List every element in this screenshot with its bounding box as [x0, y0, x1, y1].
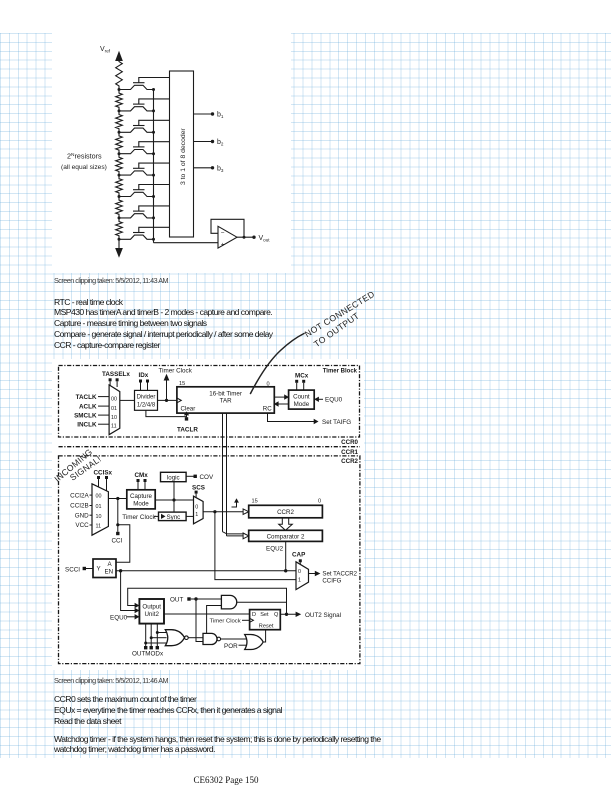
- svg-text:SMCLK: SMCLK: [74, 412, 97, 419]
- svg-text:11: 11: [96, 524, 102, 530]
- svg-text:TASSELx: TASSELx: [102, 371, 130, 378]
- svg-text:RC: RC: [263, 405, 272, 412]
- wire outmod verticals: [144, 624, 159, 650]
- svg-text:1: 1: [195, 512, 198, 518]
- node EQU0 into count mode: [314, 397, 343, 404]
- node TACLK input: [76, 394, 109, 401]
- svg-text:2Nresistors: 2Nresistors: [67, 152, 102, 161]
- svg-text:EQU0: EQU0: [325, 397, 343, 404]
- svg-text:Unit2: Unit2: [144, 611, 159, 618]
- svg-text:CCR1: CCR1: [341, 449, 358, 456]
- svg-text:IDx: IDx: [139, 372, 149, 379]
- transistor Q7: [118, 206, 170, 220]
- count mode U6: [289, 390, 315, 409]
- wire OUT feedback loop: [128, 588, 287, 614]
- divider U4: [135, 390, 158, 410]
- svg-text:3 to 1 of 8 decoder: 3 to 1 of 8 decoder: [180, 128, 187, 185]
- node COV output: [186, 474, 214, 481]
- svg-text:Divider: Divider: [137, 395, 156, 401]
- wire rail bottom: [118, 239, 120, 249]
- handwritten pointer curve: [251, 334, 305, 394]
- svg-text:0: 0: [318, 499, 321, 505]
- svg-text:01: 01: [96, 504, 102, 510]
- AND gate U18: [221, 595, 236, 609]
- node b3 output: [194, 165, 224, 173]
- MCx select stubs: [295, 380, 305, 390]
- resistor R6: [116, 175, 123, 196]
- wire output unit to D: [164, 613, 250, 615]
- NAND gate U20: [203, 633, 221, 644]
- op-amp U2: [218, 226, 237, 248]
- wire logic chain vertical: [173, 482, 175, 512]
- SCH2START: [59, 366, 361, 664]
- wire capture to CAP mux input1: [215, 512, 296, 580]
- svg-text:CCI2A: CCI2A: [70, 492, 89, 499]
- wire Set TACCR2 CCIFG: [309, 570, 358, 584]
- svg-text:Comparator 2: Comparator 2: [267, 534, 305, 541]
- svg-text:CCIFG: CCIFG: [322, 577, 341, 584]
- node b1 output: [194, 112, 224, 120]
- wire Set TAIFG: [268, 413, 352, 426]
- svg-text:logic: logic: [167, 474, 180, 481]
- svg-text:TAR: TAR: [220, 398, 232, 405]
- svg-text:10: 10: [111, 415, 117, 421]
- wire outmod taps to NOR: [144, 631, 166, 645]
- svg-text:CCI: CCI: [112, 537, 123, 544]
- resistor R8: [116, 218, 123, 239]
- svg-text:CCI2B: CCI2B: [70, 503, 89, 510]
- svg-text:CCR0: CCR0: [341, 439, 358, 446]
- CCR2 section dashed border: [59, 456, 360, 664]
- svg-text:00: 00: [96, 494, 102, 500]
- svg-text:COV: COV: [200, 474, 214, 481]
- svg-text:VCC: VCC: [75, 522, 89, 529]
- svg-text:Reset: Reset: [259, 624, 274, 630]
- wire Q output OUT2: [280, 612, 341, 619]
- svg-text:0: 0: [298, 569, 301, 575]
- resistor R5: [116, 154, 123, 175]
- svg-text:Timer Clock: Timer Clock: [159, 367, 193, 374]
- SCH1START: [61, 46, 270, 257]
- wire OUT down to NAND: [196, 599, 203, 642]
- resistor R4: [116, 132, 123, 153]
- CAP select stub: [299, 559, 302, 564]
- svg-text:0: 0: [195, 505, 198, 511]
- svg-text:MCx: MCx: [295, 373, 309, 380]
- mux U11 SCS sync select: [194, 496, 204, 524]
- TASSELx select stubs: [109, 378, 119, 387]
- svg-text:EQU2: EQU2: [266, 546, 284, 553]
- resistor R7: [116, 197, 123, 218]
- transistor Q3: [118, 120, 170, 134]
- node CCI2A input: [70, 492, 92, 499]
- IDx select stubs: [139, 380, 149, 391]
- logic box U9: [161, 472, 187, 481]
- svg-text:b2: b2: [217, 139, 224, 147]
- label Timer Clock sync: [122, 514, 158, 521]
- mux U3 clock select: [109, 385, 120, 435]
- transistor Q1: [118, 78, 170, 92]
- wire NOR to NAND: [188, 637, 203, 639]
- svg-text:POR: POR: [224, 643, 238, 650]
- svg-text:TACLK: TACLK: [76, 394, 97, 401]
- wire OR to FF reset: [263, 630, 265, 642]
- node INCLK input: [77, 421, 109, 428]
- svg-text:b3: b3: [217, 165, 224, 173]
- node latch EN junction: [119, 569, 122, 572]
- node timer clock junction: [165, 399, 168, 402]
- svg-text:CAP: CAP: [292, 552, 305, 559]
- svg-text:CCR2: CCR2: [277, 509, 294, 516]
- block arrow CCR2 to comparator: [279, 518, 293, 531]
- arrow into output unit 1: [135, 603, 140, 608]
- svg-text:Timer Clock: Timer Clock: [122, 514, 156, 521]
- wire NAND to OR: [221, 638, 246, 640]
- svg-text:Set TAIFG: Set TAIFG: [322, 419, 351, 426]
- node EQU2 junction: [284, 569, 287, 572]
- capture edge symbol: [232, 498, 239, 507]
- svg-text:Timer Block: Timer Block: [323, 369, 358, 375]
- node logic junction: [172, 498, 175, 501]
- wire TAR to count mode: [274, 394, 289, 399]
- wire sync to mux: [186, 515, 193, 517]
- wire CCI drop: [116, 499, 119, 536]
- svg-text:Set: Set: [260, 612, 269, 618]
- svg-text:EQU0: EQU0: [110, 614, 128, 621]
- wire feedback loop: [211, 219, 244, 237]
- svg-text:Count: Count: [293, 393, 310, 400]
- wire comparator to EQU2 line: [285, 541, 287, 570]
- OR gate U21: [245, 635, 264, 650]
- wire CCIS mux to capture mode: [108, 498, 126, 500]
- svg-text:Mode: Mode: [133, 501, 149, 508]
- wire count mode to TAR: [274, 401, 289, 406]
- svg-text:+: +: [221, 241, 225, 248]
- mux U14 CAP select: [296, 562, 309, 590]
- capture register U12 CCR2: [249, 505, 323, 518]
- svg-text:CCR2: CCR2: [341, 458, 358, 465]
- svg-text:Y: Y: [97, 566, 101, 573]
- wire AND input2 stub: [207, 606, 222, 634]
- CMx select stubs: [137, 479, 147, 490]
- node CCI2B input: [70, 503, 92, 510]
- svg-text:Output: Output: [142, 604, 161, 611]
- svg-text:EN: EN: [105, 569, 114, 576]
- ground arrow: [116, 249, 122, 257]
- svg-text:OUT2 Signal: OUT2 Signal: [305, 612, 341, 619]
- svg-text:b1: b1: [217, 112, 224, 120]
- svg-text:Sync: Sync: [167, 514, 181, 521]
- wire output bus: [153, 90, 155, 243]
- node OUT terminal: [170, 597, 221, 604]
- wire EN junction to output unit: [121, 571, 136, 611]
- HANDSTART: [52, 289, 376, 484]
- svg-text:11: 11: [111, 424, 117, 430]
- comparator U13: [249, 530, 323, 541]
- transistor Q6: [118, 185, 170, 199]
- wire capture mode to SCS mux: [155, 499, 193, 501]
- Vref supply arrow: [116, 52, 122, 61]
- SCS select stub: [195, 491, 198, 498]
- node ACLK input: [79, 403, 109, 410]
- node CCI junction: [116, 497, 119, 500]
- wire SCS mux output: [203, 511, 243, 513]
- arrow into output unit 2: [135, 608, 140, 613]
- timer block dashed border: [59, 366, 360, 438]
- svg-text:00: 00: [111, 396, 117, 402]
- node capture junction: [213, 510, 216, 513]
- label Timer Clock ff: [210, 619, 250, 625]
- svg-text:TACLR: TACLR: [177, 427, 198, 434]
- svg-text:16-bit Timer: 16-bit Timer: [209, 391, 242, 398]
- svg-text:Q: Q: [274, 612, 279, 618]
- wire opamp plus input: [154, 242, 219, 244]
- svg-text:Vref: Vref: [100, 46, 111, 54]
- svg-text:−: −: [221, 229, 225, 236]
- svg-text:Vout: Vout: [259, 235, 271, 243]
- svg-text:SCCI: SCCI: [65, 566, 80, 573]
- svg-text:Mode: Mode: [294, 401, 310, 408]
- resistor R1: [116, 58, 123, 90]
- node SCCI terminal: [65, 566, 93, 573]
- transistor Q2: [118, 99, 170, 113]
- wire AND to FF set: [237, 601, 287, 603]
- wire timer bus into comparator: [223, 532, 249, 539]
- svg-text:15: 15: [252, 499, 258, 505]
- svg-text:(all equal sizes): (all equal sizes): [61, 164, 107, 171]
- svg-text:OUTMODx: OUTMODx: [132, 651, 164, 658]
- node b2 output: [194, 139, 224, 147]
- flip-flop U17: [250, 610, 281, 630]
- latch U15 SCCI: [93, 559, 116, 578]
- svg-text:OUT: OUT: [170, 597, 183, 604]
- svg-text:A: A: [108, 561, 113, 568]
- timer clock up arrow: [164, 374, 170, 401]
- svg-text:10: 10: [96, 514, 102, 520]
- transistor Q8: [118, 227, 170, 241]
- svg-text:CMx: CMx: [135, 472, 149, 479]
- svg-text:SCS: SCS: [192, 484, 205, 491]
- node POR input: [224, 643, 247, 650]
- svg-text:GND: GND: [75, 512, 89, 519]
- svg-text:ACLK: ACLK: [79, 403, 97, 410]
- resistor R3: [116, 111, 123, 132]
- wire divider to TAR: [158, 399, 177, 401]
- node EQU0 into output unit: [110, 614, 139, 621]
- node SMCLK input: [74, 412, 109, 419]
- timer register U5 TAR: [177, 387, 274, 413]
- capture mode U8: [127, 490, 155, 509]
- svg-text:INCLK: INCLK: [77, 421, 97, 428]
- svg-text:1/2/4/8: 1/2/4/8: [137, 403, 156, 409]
- wire TACLR to clear: [146, 410, 198, 433]
- wire timer bus down: [223, 413, 227, 536]
- decoder U1 3 to 1 of 8: [170, 71, 194, 237]
- mux U7 capture input select: [92, 484, 108, 535]
- NOR gate U19: [165, 630, 188, 646]
- svg-text:CCISx: CCISx: [94, 469, 113, 476]
- sync box U10: [159, 512, 187, 521]
- node VCC input: [75, 522, 92, 529]
- svg-text:1: 1: [298, 578, 301, 584]
- svg-text:Set TACCR2: Set TACCR2: [322, 570, 357, 577]
- svg-text:Capture: Capture: [130, 493, 153, 500]
- svg-text:D: D: [252, 612, 256, 618]
- arrow into CCR2: [243, 509, 249, 515]
- wire mux to divider: [120, 399, 135, 401]
- CCISx select stubs: [97, 476, 108, 491]
- wire opamp output: [237, 236, 256, 239]
- svg-text:Timer Clock: Timer Clock: [210, 619, 241, 625]
- output unit U16: [139, 599, 164, 624]
- transistor Q5: [118, 163, 170, 177]
- transistor Q4: [118, 142, 170, 156]
- node GND input: [75, 512, 92, 519]
- svg-text:Clear: Clear: [181, 405, 196, 412]
- resistor R2: [116, 90, 123, 111]
- wire CCI to latch A input: [116, 525, 130, 562]
- wire EN line to CAP mux: [116, 570, 296, 572]
- svg-text:01: 01: [111, 406, 117, 412]
- CCR1 divider line: [59, 446, 361, 448]
